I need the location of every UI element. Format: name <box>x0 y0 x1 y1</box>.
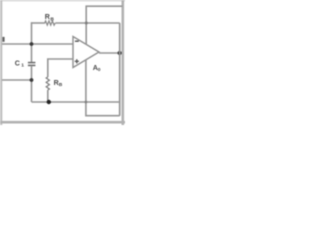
node: output feedback dot <box>118 51 122 55</box>
wire: input to inverting input y=44 <box>2 43 73 45</box>
border frame left <box>0 0 2 125</box>
wire: bias resistor to ground rail <box>47 90 49 102</box>
svg-text:0: 0 <box>98 67 101 73</box>
node: input junction dot <box>30 42 34 46</box>
capacitor C1 (plates) <box>28 62 36 64</box>
svg-text:C: C <box>15 60 20 68</box>
node: bias resistor ground dot <box>47 100 51 104</box>
border frame bottom <box>0 121 125 124</box>
resistor RB (bias, vertical zigzag) <box>46 77 49 90</box>
wire: output y=53 <box>99 52 120 54</box>
op-amp A0 triangle <box>73 37 99 68</box>
wire: top feedback rail y=23 left of resistor <box>32 22 46 24</box>
node: supply wire crossing top rail (soft) <box>85 22 88 25</box>
wire: bottom ground rail y=102.5 <box>32 101 120 103</box>
wire: top feedback rail y=23 right of resistor <box>55 22 119 24</box>
op-amp plus sign <box>75 60 79 62</box>
svg-text:B: B <box>50 16 54 22</box>
resistor RB (feedback, horizontal zigzag) <box>45 21 55 25</box>
wire: left vertical x=31.5 from capacitor to bottom rail <box>31 66 33 102</box>
border frame right <box>122 0 125 125</box>
wire: V+ supply (x=86.2 up, rail y=6.2) <box>86 6 122 44</box>
wire: right vertical x=119.7 <box>119 23 121 116</box>
border frame top <box>0 0 125 2</box>
wire: V- supply (x=85.9 down, rail y=116) <box>86 60 120 116</box>
node: supply wire crossing ground rail (soft) <box>85 101 88 104</box>
wire: left ground stub y=80 <box>2 79 32 81</box>
wire: left vertical x=31.5 from top rail to capacitor <box>31 22 33 62</box>
svg-text:1: 1 <box>21 63 24 69</box>
svg-text:B: B <box>59 82 63 88</box>
node: capacitor bottom junction dot <box>30 78 34 82</box>
op-amp minus sign <box>75 40 79 42</box>
svg-text:R: R <box>45 13 50 21</box>
wire: noninverting input L (y=59, x=48) <box>48 59 73 77</box>
input terminal tick <box>2 37 4 42</box>
